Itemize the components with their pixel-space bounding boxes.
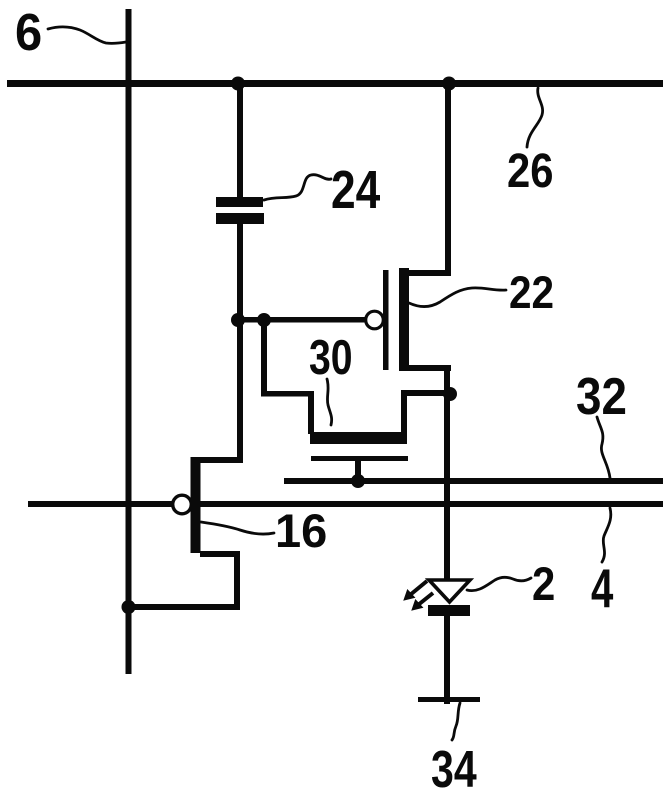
wire: LED cathode down to ground <box>444 616 450 704</box>
LED D2 cathode bar <box>428 605 470 616</box>
leader to label 30 <box>327 379 332 425</box>
transistor Q22 source horizontal lead <box>409 365 451 371</box>
wire: transistor 30 left lead vertical <box>308 391 314 434</box>
svg-text:32: 32 <box>576 368 627 425</box>
capacitor C24 bottom plate <box>216 213 264 224</box>
leader to label 6 <box>48 27 126 44</box>
junction: on data line 6 <box>122 600 136 614</box>
junction: node joining 22, 30 and LED <box>443 387 457 401</box>
ground symbol 34 <box>418 697 480 702</box>
wire: transistor 30 right lead horizontal to node <box>401 390 450 396</box>
transistor Q30 channel bar <box>310 432 407 444</box>
svg-text:2: 2 <box>532 559 555 611</box>
svg-text:22: 22 <box>509 268 554 318</box>
svg-text:26: 26 <box>507 143 553 197</box>
wire: power supply line 26 (top horizontal rail) <box>7 80 663 87</box>
svg-text:34: 34 <box>431 740 477 794</box>
transistor Q30 gate plate <box>311 456 408 461</box>
wire: branch down from gate net to transistor 30 source <box>261 320 267 396</box>
capacitor C24 top plate <box>216 197 263 207</box>
svg-text:24: 24 <box>331 160 381 220</box>
wire: transistor 22 source down to node <box>444 371 450 396</box>
wire: transistor 16 source down <box>234 557 240 610</box>
svg-text:16: 16 <box>275 504 327 557</box>
wire: transistor 30 gate to line 32 <box>355 461 361 481</box>
svg-text:6: 6 <box>15 3 42 62</box>
leader to label 4 <box>602 508 611 562</box>
wire: select line 4 (lower horizontal, full width) <box>28 501 663 507</box>
wire: data line 6 (left vertical bus) <box>126 9 132 674</box>
wire: capacitor 24 top lead <box>237 87 243 197</box>
junction: rail to transistor 22 drain wire <box>442 77 456 91</box>
wire: control line 32 (horizontal above line 4, right part) <box>284 478 663 484</box>
wire: transistor 22 drain lead from rail <box>445 87 451 276</box>
leader to label 34 <box>452 703 460 740</box>
leader to label 16 <box>201 522 274 534</box>
transistor Q16 drain horizontal lead (top) <box>200 457 240 463</box>
transistor Q22 gate plate <box>383 270 389 370</box>
wire: transistor 30 right lead vertical <box>401 395 407 434</box>
leader to label 2 <box>467 577 531 590</box>
leader to label 26 <box>527 88 543 147</box>
leader to label 32 <box>597 417 610 478</box>
junction: gate of 30 on line 32 <box>351 474 365 488</box>
wire: capacitor bottom lead down to transistor 16 <box>237 224 243 463</box>
leader to label 24 <box>264 175 331 200</box>
transistor Q16 channel bar <box>191 457 201 553</box>
transistor Q22 gate bubble (p-type) <box>366 311 384 329</box>
junction: gate net to transistor 30 branch <box>257 313 271 327</box>
wire: node down to LED anode <box>444 394 450 580</box>
svg-text:30: 30 <box>309 331 353 385</box>
LED D2 emission arrow 1 <box>404 581 427 600</box>
junction: rail to capacitor wire <box>231 77 245 91</box>
wire: horizontal toward transistor 30 left lead <box>261 391 314 397</box>
transistor Q22 channel bar <box>399 268 409 371</box>
LED D2 emission arrow 2 <box>412 593 433 610</box>
svg-text:4: 4 <box>591 558 614 620</box>
LED D2 anode triangle <box>429 580 470 602</box>
junction: node at capacitor bottom / gate net <box>231 313 245 327</box>
transistor Q16 gate bubble (p-type) <box>173 495 192 514</box>
transistor Q22 drain horizontal lead <box>409 270 451 276</box>
leader to label 22 <box>409 288 506 307</box>
transistor Q16 source horizontal lead (bottom) <box>200 551 240 557</box>
wire: gate net horizontal to transistor 22 gate <box>238 317 366 323</box>
wire: horizontal back to data line 6 <box>126 604 240 610</box>
